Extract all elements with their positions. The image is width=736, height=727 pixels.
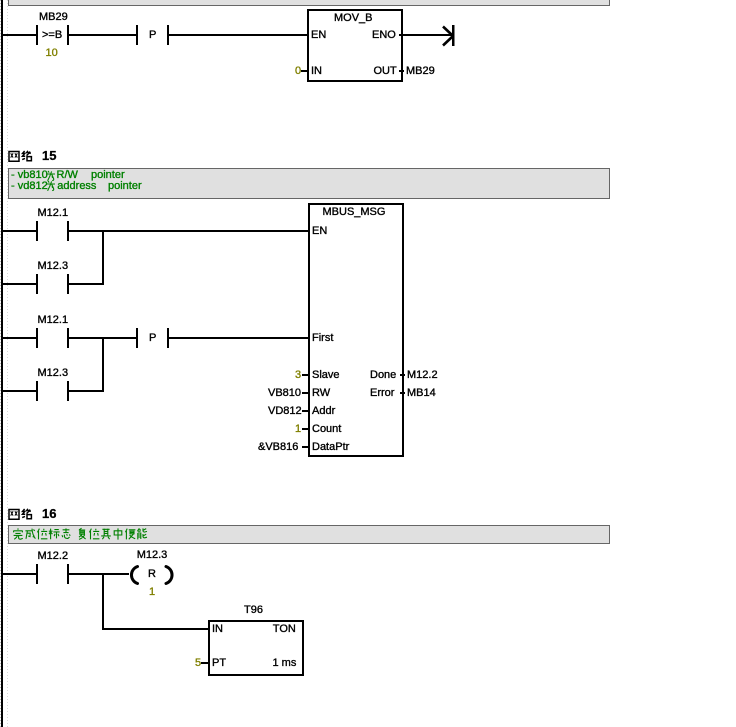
contact P bar2: [167, 25, 169, 45]
comment 使: [124, 528, 136, 540]
pin PT: [212, 657, 226, 669]
rung wire rail to M12.2: [3, 573, 36, 575]
title T96: [244, 604, 263, 616]
comment line 1: [11, 169, 48, 181]
contact compare text >=B: [42, 29, 62, 41]
operand MB29 at OUT: [406, 65, 435, 77]
label P: [149, 29, 156, 41]
contact P bar2: [167, 328, 169, 348]
comment 标: [48, 528, 60, 540]
pin 1 ms: [273, 657, 297, 669]
pin Error: [370, 387, 394, 399]
pin EN: [311, 29, 326, 41]
pin TON: [273, 623, 296, 635]
contact M12.1 bar1: [36, 328, 38, 348]
contact MB29 >=B bar1: [36, 25, 38, 45]
pin Addr: [312, 405, 335, 417]
label M12.3: [38, 367, 69, 379]
coil R parens: [125, 560, 177, 590]
value VB810: [268, 387, 301, 399]
title MBUS_MSG: [323, 206, 386, 218]
wire rail to contact MB29: [3, 34, 36, 36]
contact M12.2 bar2: [67, 564, 69, 584]
label M12.2: [38, 550, 69, 562]
contact M12.3 bar1: [36, 274, 38, 294]
comment 志: [60, 528, 72, 540]
operand M12.2: [407, 369, 438, 381]
wire P to MOV_B: [169, 34, 307, 36]
label M12.3: [137, 549, 168, 561]
wire ENO to arrow: [399, 34, 452, 36]
comment 其: [100, 528, 112, 540]
pin DataPtr: [312, 441, 349, 453]
value 1: [149, 586, 155, 598]
comment 中: [112, 528, 124, 540]
label P: [149, 332, 156, 344]
tick DataPtr: [302, 446, 308, 448]
tick Count: [302, 428, 308, 430]
pin Done: [370, 369, 396, 381]
pin IN: [311, 65, 322, 77]
rung A wire rail to M12.1: [3, 230, 36, 232]
value 0 at IN: [295, 65, 301, 77]
comment 成: [24, 528, 36, 540]
contact M12.3 bar1: [36, 381, 38, 401]
tick Done out: [400, 374, 405, 376]
pin Slave: [312, 369, 340, 381]
wire M12.1 to MBUS EN: [69, 230, 308, 232]
label M12.3: [38, 260, 69, 272]
contact M12.1 bar1: [36, 221, 38, 241]
wire MB29 to P contact: [69, 34, 136, 36]
wire P to First: [169, 337, 308, 339]
rung B wire rail to M12.3: [3, 283, 36, 285]
contact M12.3 bar2: [67, 381, 69, 401]
network 15 header 网: [8, 150, 20, 162]
title MOV_B: [334, 12, 373, 24]
pin ENO: [372, 29, 396, 41]
wire M12.1 to P: [69, 337, 136, 339]
network 15 comment box: [8, 168, 610, 199]
coil letter R: [148, 568, 156, 580]
rung D wire rail to M12.3: [3, 390, 36, 392]
wire M12.3 to branch: [69, 283, 104, 285]
tick Addr: [302, 410, 308, 412]
value VD812: [268, 405, 302, 417]
label M12.1: [38, 207, 69, 219]
box MBUS_MSG: [308, 203, 404, 457]
network 15 header 络: [21, 150, 33, 162]
comment 位: [36, 528, 48, 540]
comment 能: [136, 528, 148, 540]
network 16 header 络: [21, 508, 33, 520]
branch vertical to T96: [102, 573, 104, 630]
branch vertical A-B: [102, 230, 104, 285]
wire M12.3 to branch: [69, 390, 104, 392]
pin OUT: [374, 65, 397, 77]
tick 5 to PT: [201, 662, 208, 664]
branch vertical C-D: [102, 337, 104, 392]
pin First: [312, 332, 333, 344]
box T96 TON: [208, 620, 304, 676]
contact P bar1: [136, 328, 138, 348]
label M12.1: [38, 314, 69, 326]
rung C wire rail to M12.1: [3, 337, 36, 339]
comment line 2: [11, 180, 48, 192]
tick Error out: [400, 392, 405, 394]
tick 0 to IN: [301, 70, 307, 72]
dotted page margin line x=7: [7, 0, 8, 727]
pin Count: [312, 423, 341, 435]
pin RW: [312, 387, 330, 399]
tick RW: [302, 392, 308, 394]
contact M12.1 bar2: [67, 221, 69, 241]
box MOV_B: [307, 9, 403, 82]
contact M12.1 bar2: [67, 328, 69, 348]
comment 完: [12, 528, 24, 540]
comment 复: [76, 528, 88, 540]
comment 为 glyph: [45, 170, 57, 182]
contact MB29 >=B bar2: [67, 25, 69, 45]
contact P bar1: [136, 25, 138, 45]
wire branch to T96 IN: [104, 628, 208, 630]
pin IN: [212, 623, 223, 635]
network 15 header number: [42, 150, 56, 162]
pin EN: [312, 225, 327, 237]
left power rail: [1, 0, 3, 727]
label MB29: [39, 11, 68, 23]
value 5: [195, 657, 201, 669]
network 14 comment box sliver (top edge): [8, 0, 610, 6]
wire M12.2 to coil: [69, 573, 129, 575]
value 3 Slave: [295, 369, 301, 381]
comment 位: [88, 528, 100, 540]
tick OUT to MB29: [399, 70, 404, 72]
contact M12.2 bar1: [36, 564, 38, 584]
network 16 header 网: [8, 508, 20, 520]
network 16 header number: [42, 508, 56, 520]
contact M12.3 bar2: [67, 274, 69, 294]
value 10: [46, 47, 58, 59]
dotted page margin line x=0: [0, 0, 1, 727]
operand MB14: [407, 387, 436, 399]
network 16 comment box: [8, 525, 610, 544]
value &VB816: [258, 441, 298, 453]
tick Slave: [302, 374, 308, 376]
value 1 Count: [295, 423, 301, 435]
arrow open branch: [438, 20, 460, 52]
